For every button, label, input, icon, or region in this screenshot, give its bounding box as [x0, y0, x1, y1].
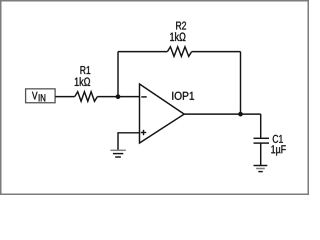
ground (C1)	[254, 166, 268, 172]
source VIN	[26, 89, 55, 103]
wire feedback right vertical	[240, 52, 242, 115]
plus pin label	[141, 132, 146, 134]
wire R1 to node A	[97, 96, 139, 98]
wire output down to C1	[260, 114, 262, 138]
wire feedback top right segment	[192, 51, 241, 53]
resistor R1	[75, 66, 98, 101]
wire output	[184, 113, 261, 115]
capacitor C1	[254, 135, 286, 156]
wire feedback top left segment	[118, 51, 167, 53]
ground (op-amp + input)	[110, 150, 125, 157]
resistor R2	[167, 22, 191, 57]
op-amp U1 IOP1	[140, 84, 195, 143]
wire C1 to ground	[260, 143, 262, 165]
wire noninverting input	[118, 133, 140, 150]
node A (inverting input junction)	[116, 94, 121, 99]
node B (output junction)	[238, 112, 243, 117]
wire feedback left vertical	[117, 52, 119, 97]
wire VIN to R1	[55, 96, 74, 98]
minus pin label	[141, 96, 146, 98]
